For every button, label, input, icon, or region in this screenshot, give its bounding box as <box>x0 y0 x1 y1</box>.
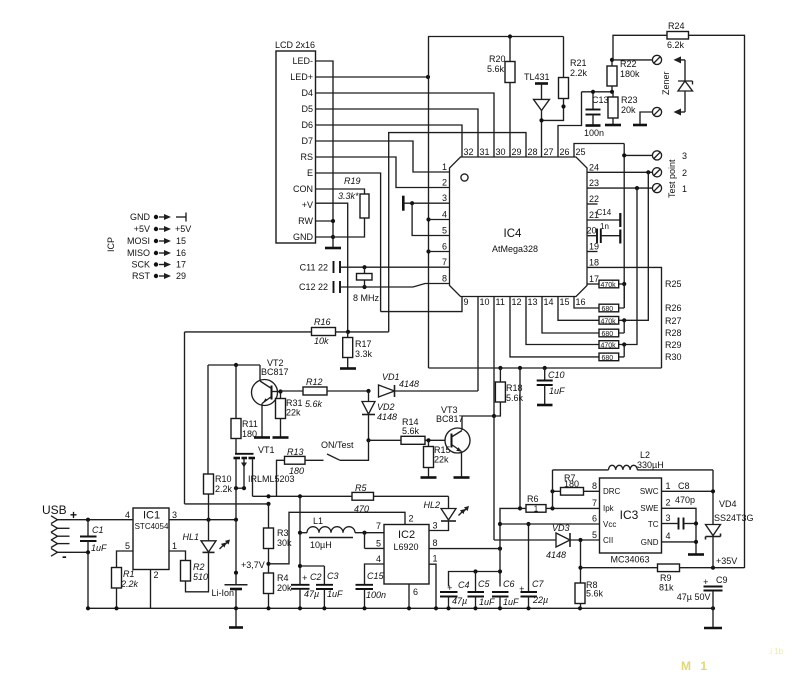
ICP row +5V arrow <box>154 224 191 234</box>
svg-text:22k: 22k <box>286 408 301 418</box>
resistor R8 5.6k <box>575 540 604 608</box>
wire +5V horizontal distribution row <box>429 366 662 370</box>
svg-text:R27: R27 <box>665 316 682 326</box>
LED HL2 <box>423 496 469 530</box>
svg-text:81k: 81k <box>659 583 674 593</box>
op-amp U1 IC4 AtMega328 body <box>450 157 588 297</box>
svg-text:16: 16 <box>176 248 186 258</box>
svg-text:6: 6 <box>442 242 447 252</box>
svg-text:1uF: 1uF <box>327 589 343 599</box>
wire pin 18 AVCC to +5V row <box>587 267 662 368</box>
svg-text:26: 26 <box>560 147 570 157</box>
svg-text:4148: 4148 <box>377 412 397 422</box>
svg-text:510: 510 <box>193 572 208 582</box>
svg-text:3: 3 <box>433 521 438 531</box>
resistor R12 5.6k <box>281 377 371 409</box>
svg-text:5.6k: 5.6k <box>586 589 604 599</box>
svg-text:680: 680 <box>602 306 614 313</box>
svg-text:+5V: +5V <box>175 224 191 234</box>
svg-text:HL1: HL1 <box>182 532 199 542</box>
svg-text:C14: C14 <box>597 208 612 217</box>
svg-text:28: 28 <box>528 147 538 157</box>
node GND junction <box>316 235 336 239</box>
svg-text:R2: R2 <box>193 562 205 572</box>
switch ON/Test <box>321 440 369 460</box>
resistor R23 20k <box>605 92 638 125</box>
ground symbol bottom right <box>704 608 722 628</box>
svg-text:4: 4 <box>442 210 447 220</box>
resistor R6 1 <box>520 494 600 514</box>
svg-text:13: 13 <box>528 297 538 307</box>
svg-text:8: 8 <box>442 274 447 284</box>
wire D4 to pin 30 <box>316 93 495 157</box>
LED HL1 <box>182 520 230 553</box>
svg-text:2.2k: 2.2k <box>120 579 139 589</box>
capacitor C8 timing <box>662 518 699 530</box>
svg-text:SWC: SWC <box>640 487 659 496</box>
svg-text:100n: 100n <box>584 128 604 138</box>
svg-text:MOSI: MOSI <box>127 236 150 246</box>
wire pin 14 to R28 <box>542 297 599 334</box>
svg-text:180k: 180k <box>620 69 640 79</box>
svg-text:2: 2 <box>409 514 414 524</box>
resistor R27 470k <box>599 316 682 326</box>
wire pin 17 to R25 <box>587 283 599 285</box>
svg-text:14: 14 <box>544 297 554 307</box>
resistor R20 5.6k reset pullup <box>487 37 515 158</box>
svg-text:470k: 470k <box>601 343 617 350</box>
svg-text:TL431: TL431 <box>524 72 550 82</box>
svg-text:20k: 20k <box>621 105 636 115</box>
resistor R25 470k <box>599 279 682 289</box>
svg-text:+: + <box>302 573 307 583</box>
svg-text:4: 4 <box>125 510 130 520</box>
svg-text:4148: 4148 <box>399 379 419 389</box>
svg-text:1uF: 1uF <box>503 597 519 607</box>
svg-text:C2: C2 <box>310 572 322 582</box>
svg-text:CON: CON <box>293 184 313 194</box>
svg-text:DRC: DRC <box>603 487 621 496</box>
svg-text:L6920: L6920 <box>393 542 418 552</box>
connector USB <box>42 503 77 564</box>
svg-text:15: 15 <box>176 236 186 246</box>
svg-text:VD4: VD4 <box>719 499 737 509</box>
svg-text:ON/Test: ON/Test <box>321 440 354 450</box>
svg-text:18: 18 <box>589 258 599 268</box>
svg-text:47µ: 47µ <box>452 596 467 606</box>
svg-text:C10: C10 <box>548 370 565 380</box>
resistor R9 81k <box>581 564 745 593</box>
svg-text:C4: C4 <box>458 580 470 590</box>
svg-text:2: 2 <box>682 168 687 178</box>
resistor R18 5.6k <box>494 368 524 416</box>
svg-text:1: 1 <box>433 554 438 564</box>
wire pin 4 from +5V rail <box>429 219 450 221</box>
wire CON to R19 <box>316 189 365 194</box>
ICP row MOSI arrow to 15 <box>154 236 186 246</box>
svg-text:VD3: VD3 <box>552 523 570 533</box>
resistor R31 22k <box>273 389 303 437</box>
svg-text:5: 5 <box>592 530 597 540</box>
svg-text:CII: CII <box>603 536 613 545</box>
svg-text:680: 680 <box>602 331 614 338</box>
ground symbol below battery <box>229 608 243 627</box>
capacitor C2 47u electrolytic <box>291 572 322 608</box>
svg-text:7: 7 <box>442 257 447 267</box>
svg-text:2.2k: 2.2k <box>570 68 588 78</box>
svg-text:5.6k: 5.6k <box>506 393 524 403</box>
svg-text:15: 15 <box>560 297 570 307</box>
svg-text:D5: D5 <box>301 104 313 114</box>
svg-text:RW: RW <box>298 216 313 226</box>
ICP row SCK arrow to 17 <box>154 260 186 270</box>
svg-text:C9: C9 <box>716 575 728 585</box>
svg-text:C3: C3 <box>327 571 339 581</box>
IC4 bottom pin numbers 9-16 <box>464 297 586 307</box>
svg-text:1uF: 1uF <box>549 386 565 396</box>
svg-text:MC34063: MC34063 <box>610 555 649 565</box>
wire pin 12 to R30 <box>510 297 599 357</box>
resistor R24 6.2k <box>613 21 745 568</box>
svg-text:+3,7V: +3,7V <box>241 560 265 570</box>
wire IC2 pin7 and pin5 from L1 <box>365 533 385 549</box>
svg-text:4148: 4148 <box>546 550 566 560</box>
svg-text:R23: R23 <box>621 95 638 105</box>
svg-text:VT1: VT1 <box>258 445 275 455</box>
svg-text:6.2k: 6.2k <box>667 40 685 50</box>
wire IC3 pin2 SWE <box>662 508 697 553</box>
ground under LCD <box>325 237 341 248</box>
wire battery rail vertical x300 <box>298 496 302 585</box>
label Test point rotated <box>667 159 677 198</box>
svg-text:R3: R3 <box>277 528 289 538</box>
regulator IC3 MC34063 <box>592 478 671 565</box>
svg-text:IC4: IC4 <box>504 228 523 240</box>
svg-text:1: 1 <box>442 162 447 172</box>
svg-text:R28: R28 <box>665 328 682 338</box>
svg-text:VD1: VD1 <box>382 372 400 382</box>
svg-text:+35V: +35V <box>716 556 737 566</box>
svg-text:R15: R15 <box>434 445 451 455</box>
resistor R22 180k <box>607 58 640 94</box>
wire VT1 drain row to R5 <box>253 494 449 498</box>
svg-text:17: 17 <box>589 274 599 284</box>
wire +5V top rail <box>428 34 564 38</box>
svg-text:R29: R29 <box>665 340 682 350</box>
svg-text:3: 3 <box>172 510 177 520</box>
resistor R21 2.2k <box>542 37 588 121</box>
svg-text:12: 12 <box>512 297 522 307</box>
diode VD3 4148 <box>494 416 600 560</box>
capacitor C14 1n on pins 21 20 <box>587 208 620 244</box>
IC4 left pin numbers 1-8 <box>442 162 447 284</box>
svg-text:2: 2 <box>154 570 159 580</box>
svg-text:Zener: Zener <box>661 71 671 95</box>
wire pin 25 top route <box>574 144 624 158</box>
svg-text:29: 29 <box>176 271 186 281</box>
svg-text:IC2: IC2 <box>398 529 415 541</box>
wire cap top row C4 C5 <box>449 569 501 586</box>
wire LED- to ground rail <box>316 61 334 237</box>
svg-text:1uF: 1uF <box>479 597 495 607</box>
diode VD1 4148 <box>379 372 479 397</box>
svg-text:5: 5 <box>376 539 381 549</box>
wire left rail down from R16 row <box>184 332 186 504</box>
svg-text:BC817: BC817 <box>261 367 289 377</box>
battery Li-Ion <box>211 520 247 609</box>
svg-text:1: 1 <box>534 505 539 514</box>
resistor R3 30k <box>264 504 293 573</box>
svg-text:R1: R1 <box>123 569 135 579</box>
svg-text:1: 1 <box>682 184 687 194</box>
ICP row GND arrow and ground stub <box>154 213 186 222</box>
svg-text:GND: GND <box>293 232 314 242</box>
IC4 top pin numbers 32-25 <box>464 147 586 157</box>
resistor R4 20k <box>264 573 293 608</box>
wire pin 9 to E net <box>381 297 462 312</box>
capacitor C7 22u electrolytic <box>519 522 548 608</box>
wire IC3 pin4 GND <box>662 540 705 555</box>
test point screw lower ground <box>633 107 662 125</box>
resistor R30 680 <box>599 345 682 363</box>
wire pin 26 to reference divider <box>558 92 582 157</box>
svg-text:25: 25 <box>576 147 586 157</box>
inductor L1 10uH <box>300 516 384 550</box>
resistor R2 510 <box>169 551 209 592</box>
svg-text:E: E <box>307 168 313 178</box>
diode VD4 SS24T3G <box>706 499 754 568</box>
svg-text:TC: TC <box>648 520 659 529</box>
svg-text:C12 22: C12 22 <box>299 282 328 292</box>
svg-text:22: 22 <box>589 194 599 204</box>
svg-text:30: 30 <box>496 147 506 157</box>
svg-text:100n: 100n <box>366 590 386 600</box>
wire IC2 pin4 to C15 <box>365 564 385 585</box>
svg-text:IRLML5203: IRLML5203 <box>248 474 295 484</box>
wire +5V vertical rail <box>426 37 430 369</box>
svg-text:ICP: ICP <box>106 237 116 252</box>
resistor R28 680 <box>599 320 682 338</box>
svg-text:+5V: +5V <box>134 224 150 234</box>
capacitor C5 1uF <box>468 572 496 609</box>
svg-text:11: 11 <box>496 297 505 307</box>
resistor R7 180 <box>550 470 599 509</box>
svg-text:R13: R13 <box>287 447 304 457</box>
svg-text:23: 23 <box>589 178 599 188</box>
svg-text:3: 3 <box>682 151 687 161</box>
wire IC1 pin3 row <box>169 518 238 522</box>
wire pin 6 from +5V rail <box>429 251 450 253</box>
svg-text:R24: R24 <box>668 21 685 31</box>
svg-text:L2: L2 <box>640 450 650 460</box>
svg-text:330µH: 330µH <box>637 460 664 470</box>
wire riser TP2 to R27 <box>619 172 649 322</box>
wire pin 10 down to VD1 <box>477 297 479 392</box>
svg-text:20k: 20k <box>277 583 292 593</box>
svg-text:C8: C8 <box>678 481 690 491</box>
svg-text:470k: 470k <box>601 282 617 289</box>
svg-text:D6: D6 <box>301 120 313 130</box>
transistor VT3 BC817 <box>436 405 496 478</box>
capacitor C9 47u 50V <box>677 575 728 608</box>
svg-text:RST: RST <box>132 271 151 281</box>
capacitor C4 47u electrolytic <box>440 580 470 608</box>
node RW junction <box>316 219 336 223</box>
svg-text:47µ: 47µ <box>304 589 319 599</box>
svg-text:10k: 10k <box>314 336 329 346</box>
resistor R11 180 <box>231 365 258 453</box>
svg-text:1: 1 <box>666 481 671 491</box>
watermark <box>681 647 784 673</box>
wire +5V net riser at x500 <box>498 506 522 586</box>
svg-text:L1: L1 <box>313 516 323 526</box>
svg-text:R21: R21 <box>570 58 587 68</box>
svg-text:+V: +V <box>302 200 313 210</box>
wire D7 to pin 1 <box>316 141 450 172</box>
svg-text:470p: 470p <box>675 495 695 505</box>
svg-text:31: 31 <box>480 147 490 157</box>
label +3,7V <box>241 560 265 570</box>
resistor R29 470k <box>599 340 682 350</box>
resistor R13 180 <box>277 447 324 496</box>
test point 3 <box>624 151 687 161</box>
wire E down to R16 row <box>316 173 381 312</box>
svg-text:.i 1b: .i 1b <box>768 647 784 656</box>
svg-text:C13: C13 <box>592 95 609 105</box>
crystal ZQ1 8 MHz <box>353 267 380 303</box>
svg-text:1: 1 <box>172 541 177 551</box>
svg-text:R30: R30 <box>665 352 682 362</box>
IC4 right pin numbers 24-17 <box>587 163 600 285</box>
wire pin 19 stub <box>587 251 598 253</box>
charger IC1 STC4054 <box>125 508 177 580</box>
svg-text:M 1: M 1 <box>681 659 710 673</box>
wire pin 28 route from R16/E net <box>389 133 526 332</box>
svg-text:R6: R6 <box>527 494 539 504</box>
connector ICP header <box>106 212 151 281</box>
capacitor C13 100n <box>582 90 613 138</box>
svg-text:C7: C7 <box>532 579 544 589</box>
svg-text:STC4054: STC4054 <box>135 522 169 531</box>
wire IC2 pin8 output <box>429 547 502 551</box>
svg-text:10µH: 10µH <box>310 540 332 550</box>
svg-text:MISO: MISO <box>127 248 150 258</box>
svg-text:27: 27 <box>544 147 554 157</box>
diode VD2 4148 <box>362 391 397 442</box>
svg-text:R25: R25 <box>665 279 682 289</box>
svg-text:D7: D7 <box>301 136 313 146</box>
svg-text:30k: 30k <box>277 538 292 548</box>
svg-text:RS: RS <box>300 152 313 162</box>
wire USB plus row <box>58 518 134 522</box>
svg-text:5.6k: 5.6k <box>305 399 323 409</box>
wire Vcc row to IC3 pin6 <box>500 523 600 525</box>
svg-text:LED+: LED+ <box>290 72 313 82</box>
svg-text:AtMega328: AtMega328 <box>492 244 538 254</box>
svg-text:7: 7 <box>592 498 597 508</box>
wire IC3 pin1 SWC <box>662 481 716 505</box>
svg-text:R17: R17 <box>355 339 372 349</box>
resistor R17 3.3k <box>340 332 373 369</box>
svg-text:GND: GND <box>641 538 659 547</box>
capacitor C3 1uF <box>300 566 343 608</box>
svg-text:4: 4 <box>376 554 381 564</box>
svg-text:R26: R26 <box>665 303 682 313</box>
resistor R15 22k <box>421 440 451 477</box>
capacitor C11 22 <box>300 261 450 273</box>
svg-text:C5: C5 <box>478 579 490 589</box>
svg-text:USB: USB <box>42 503 67 517</box>
svg-text:5: 5 <box>442 226 447 236</box>
svg-text:Vcc: Vcc <box>603 520 616 529</box>
svg-text:C1: C1 <box>92 525 104 535</box>
svg-text:6: 6 <box>413 587 418 597</box>
wire pin 22 stub <box>587 203 598 205</box>
svg-text:LED-: LED- <box>292 56 313 66</box>
svg-text:2: 2 <box>442 178 447 188</box>
svg-text:3: 3 <box>442 193 447 203</box>
svg-text:5.6k: 5.6k <box>487 64 505 74</box>
svg-text:680: 680 <box>602 355 614 362</box>
capacitor C15 100n <box>356 571 387 608</box>
capacitor C10 1uF <box>537 368 565 405</box>
svg-text:LCD 2x16: LCD 2x16 <box>275 40 315 50</box>
capacitor C1 1uF <box>58 520 108 609</box>
svg-text:22k: 22k <box>434 455 449 465</box>
wire IC2 pin1 to ground <box>429 564 436 608</box>
wire IC2 pin6 to ground <box>408 584 410 608</box>
svg-text:24: 24 <box>589 163 599 173</box>
shunt regulator TL431 <box>524 72 550 157</box>
transistor VT2 BC817 <box>252 358 289 438</box>
svg-text:8 MHz: 8 MHz <box>353 293 380 303</box>
svg-text:7: 7 <box>376 521 381 531</box>
svg-text:2: 2 <box>666 498 671 508</box>
svg-text:180: 180 <box>289 466 304 476</box>
svg-text:R9: R9 <box>660 573 672 583</box>
resistor R19 3.3k* <box>333 176 369 237</box>
wire riser TP1 to R29 <box>619 188 637 347</box>
svg-text:SCK: SCK <box>131 260 150 270</box>
svg-text:180: 180 <box>242 429 257 439</box>
svg-text:2.2k: 2.2k <box>215 484 233 494</box>
svg-text:+: + <box>703 577 708 587</box>
resistor R26 680 <box>599 284 682 313</box>
resistor R5 470 <box>352 483 374 514</box>
wire LBI feedback to IC2 pin2 <box>269 512 406 564</box>
svg-text:8: 8 <box>433 538 438 548</box>
svg-text:SS24T3G: SS24T3G <box>714 513 754 523</box>
svg-text:R10: R10 <box>215 474 232 484</box>
svg-text:R5: R5 <box>355 483 367 493</box>
wire D5 to pin 31 <box>316 109 479 157</box>
label +35V <box>716 556 737 566</box>
svg-text:D4: D4 <box>301 88 313 98</box>
svg-text:C15: C15 <box>367 571 385 581</box>
resistor R16 10k <box>185 317 389 346</box>
resistor R1 2.2k <box>112 551 139 608</box>
svg-text:3.3k: 3.3k <box>355 349 373 359</box>
ground stub at pin 3 and pin 5 <box>403 196 449 236</box>
wire riser TP3 to R25 <box>622 144 626 309</box>
svg-text:GND: GND <box>130 212 151 222</box>
svg-text:3.3k*: 3.3k* <box>338 191 359 201</box>
svg-text:R11: R11 <box>242 419 258 429</box>
resistor R14 5.6k <box>369 417 446 444</box>
svg-text:1uF: 1uF <box>91 543 107 553</box>
resistor R10 2.2k <box>204 474 233 520</box>
wire pin 11 down to VT3 collector row <box>493 297 495 417</box>
